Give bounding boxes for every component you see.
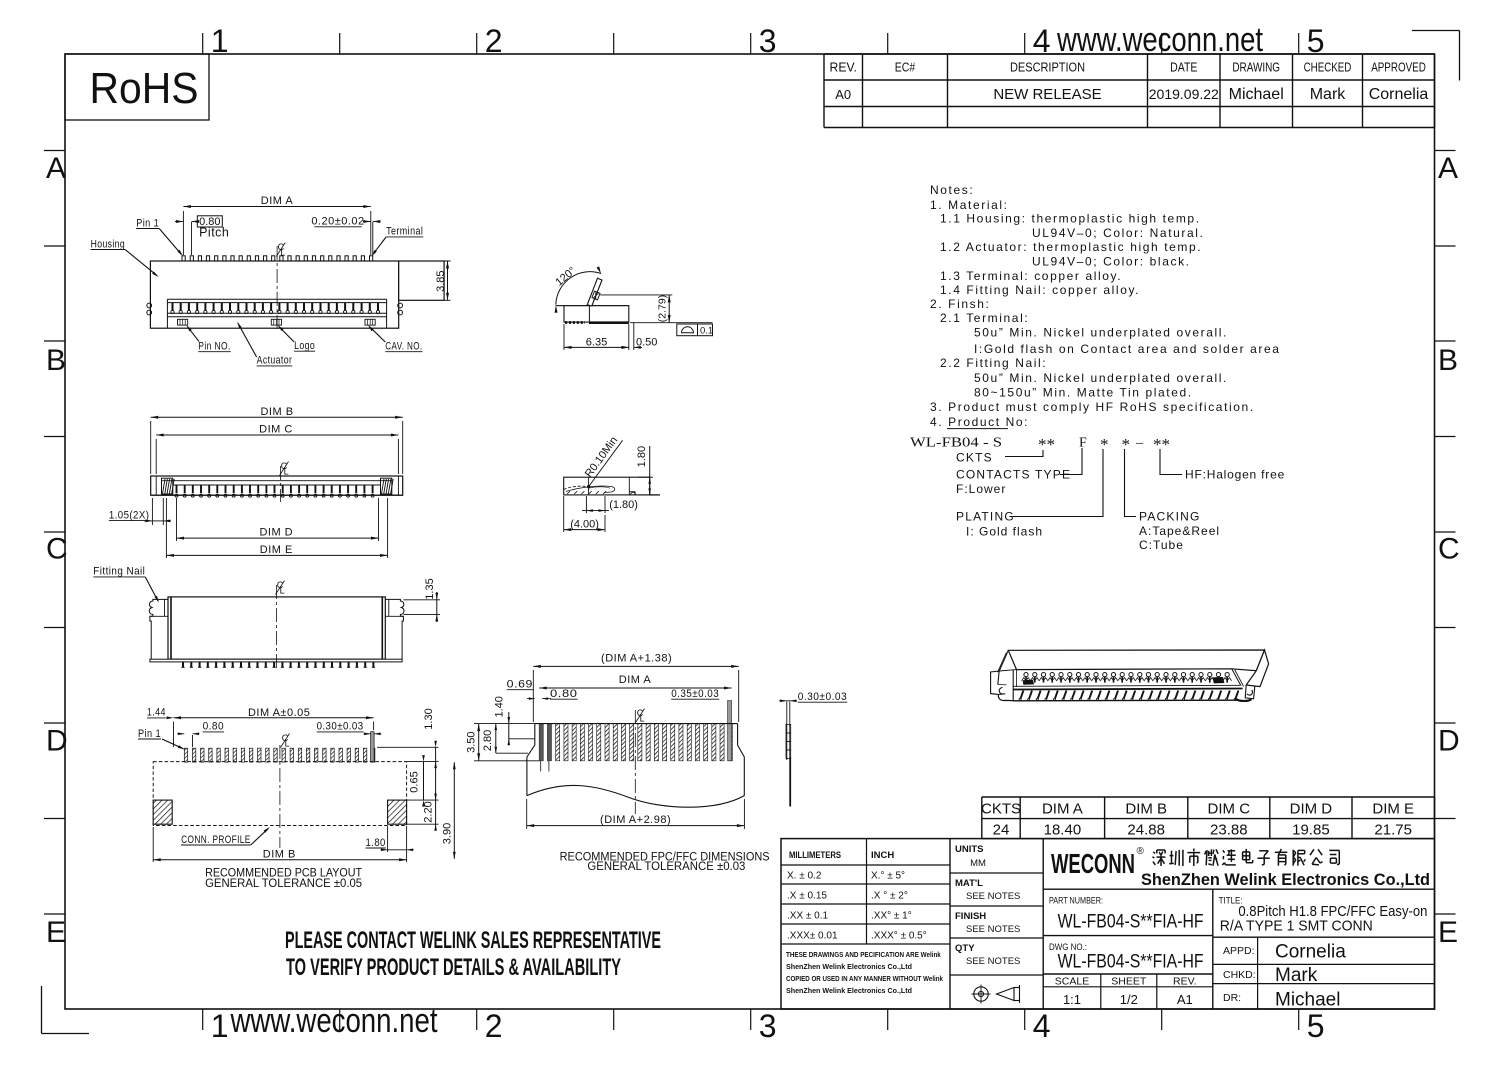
svg-text:APPROVED: APPROVED bbox=[1371, 60, 1426, 75]
svg-text:.XX° ± 1°: .XX° ± 1° bbox=[871, 911, 912, 922]
svg-text:CAV. NO.: CAV. NO. bbox=[385, 341, 422, 353]
svg-text:23.88: 23.88 bbox=[1210, 822, 1248, 839]
svg-text:A0: A0 bbox=[835, 87, 851, 102]
svg-text:HF:Halogen free: HF:Halogen free bbox=[1185, 468, 1285, 482]
svg-text:UNITS: UNITS bbox=[955, 844, 984, 855]
svg-text:CKTS: CKTS bbox=[981, 801, 1021, 818]
svg-text:ShenZhen Welink Electronics Co: ShenZhen Welink Electronics Co.,Ltd bbox=[786, 988, 912, 995]
svg-text:0.80: 0.80 bbox=[550, 688, 578, 700]
svg-text:2: 2 bbox=[485, 23, 503, 59]
svg-text:4. Product No:: 4. Product No: bbox=[930, 415, 1029, 429]
svg-text:DRAWING: DRAWING bbox=[1232, 60, 1280, 75]
svg-text:CONN. PROFILE: CONN. PROFILE bbox=[181, 834, 251, 846]
svg-text:C: C bbox=[1438, 533, 1460, 566]
svg-text:CONTACTS TYPE: CONTACTS TYPE bbox=[956, 468, 1071, 482]
svg-text:REV.: REV. bbox=[1173, 976, 1197, 988]
svg-text:GENERAL TOLERANCE ±0.05: GENERAL TOLERANCE ±0.05 bbox=[205, 878, 362, 890]
svg-text:2.1 Terminal:: 2.1 Terminal: bbox=[940, 311, 1029, 325]
svg-text:3.90: 3.90 bbox=[442, 823, 454, 844]
svg-text:.X ° ± 2°: .X ° ± 2° bbox=[871, 891, 908, 902]
svg-text:1.35: 1.35 bbox=[424, 578, 436, 599]
svg-text:18.40: 18.40 bbox=[1044, 822, 1082, 839]
svg-text:.XXX° ± 0.5°: .XXX° ± 0.5° bbox=[871, 931, 927, 942]
svg-text:INCH: INCH bbox=[871, 850, 894, 861]
svg-text:1. Material:: 1. Material: bbox=[930, 198, 1009, 212]
svg-text:24.88: 24.88 bbox=[1127, 822, 1165, 839]
svg-text:A: A bbox=[1438, 152, 1458, 185]
svg-text:DR:: DR: bbox=[1223, 992, 1241, 1004]
svg-text:3. Product must comply HF: 3. Product must comply HF RoHS specifica… bbox=[930, 400, 1255, 414]
svg-text:WL-FB04 - S: WL-FB04 - S bbox=[910, 436, 1002, 451]
svg-text:.XXX± 0.01: .XXX± 0.01 bbox=[787, 931, 838, 942]
svg-text:**: ** bbox=[1153, 435, 1170, 454]
svg-text:QTY: QTY bbox=[955, 943, 975, 954]
svg-text:UL94V–0; Color: black.: UL94V–0; Color: black. bbox=[1032, 255, 1191, 269]
svg-text:A1: A1 bbox=[1177, 992, 1193, 1007]
svg-text:0.69: 0.69 bbox=[507, 679, 533, 691]
svg-text:PLEASE CONTACT WELINK SALES RE: PLEASE CONTACT WELINK SALES REPRESENTATI… bbox=[285, 927, 661, 954]
svg-text:1.1 Housing: thermoplastic: 1.1 Housing: thermoplastic high temp. bbox=[940, 212, 1201, 226]
svg-text:CKTS: CKTS bbox=[956, 451, 993, 465]
svg-text:CHKD:: CHKD: bbox=[1223, 969, 1256, 981]
svg-text:B: B bbox=[1438, 344, 1458, 377]
svg-text:X. ± 0.2: X. ± 0.2 bbox=[787, 871, 822, 882]
svg-text:B: B bbox=[46, 344, 66, 377]
svg-text:2: 2 bbox=[485, 1008, 503, 1044]
svg-text:X.° ± 5°: X.° ± 5° bbox=[871, 871, 905, 882]
svg-text:1: 1 bbox=[211, 1008, 229, 1044]
svg-text:19.85: 19.85 bbox=[1292, 822, 1330, 839]
svg-text:NEW RELEASE: NEW RELEASE bbox=[993, 86, 1101, 103]
svg-text:1.44: 1.44 bbox=[147, 707, 166, 719]
svg-text:D: D bbox=[1438, 725, 1460, 758]
svg-text:DIM E: DIM E bbox=[1372, 801, 1414, 818]
svg-text:–: – bbox=[1135, 436, 1144, 451]
svg-text:Fitting Nail: Fitting Nail bbox=[93, 566, 145, 578]
svg-text:3: 3 bbox=[759, 1008, 777, 1044]
svg-text:1.4 Fitting Nail: copper a: 1.4 Fitting Nail: copper alloy. bbox=[940, 283, 1140, 297]
svg-text:www.weconn.net: www.weconn.net bbox=[230, 1002, 438, 1040]
svg-text:Cornelia: Cornelia bbox=[1275, 942, 1346, 963]
svg-text:Actuator: Actuator bbox=[257, 355, 293, 367]
svg-text:50u” Min. Nickel underplate: 50u” Min. Nickel underplated overall. bbox=[974, 371, 1228, 385]
svg-text:2019.09.22: 2019.09.22 bbox=[1149, 86, 1219, 102]
svg-text:WECONN: WECONN bbox=[1051, 848, 1135, 879]
svg-text:(DIM A+1.38): (DIM A+1.38) bbox=[601, 653, 672, 665]
svg-text:1.3 Terminal: copper alloy.: 1.3 Terminal: copper alloy. bbox=[940, 269, 1122, 283]
svg-text:Terminal: Terminal bbox=[386, 226, 423, 238]
svg-text:(1.80): (1.80) bbox=[609, 499, 638, 511]
svg-text:A:Tape&Reel: A:Tape&Reel bbox=[1139, 524, 1220, 538]
svg-text:MILLIMETERS: MILLIMETERS bbox=[789, 850, 841, 861]
svg-text:0.30±0.03: 0.30±0.03 bbox=[798, 691, 848, 703]
svg-text:2.2 Fitting Nail:: 2.2 Fitting Nail: bbox=[940, 356, 1047, 370]
svg-text:(4.00): (4.00) bbox=[570, 519, 599, 531]
svg-text:24: 24 bbox=[993, 822, 1010, 839]
svg-text:3: 3 bbox=[759, 23, 777, 59]
svg-text:PART NUMBER:: PART NUMBER: bbox=[1049, 896, 1103, 907]
svg-text:ShenZhen Welink Electronics Co: ShenZhen Welink Electronics Co.,Ltd bbox=[1141, 870, 1430, 889]
svg-text:0.1: 0.1 bbox=[700, 326, 713, 337]
svg-text:Pin 1: Pin 1 bbox=[136, 217, 159, 229]
svg-text:Housing: Housing bbox=[91, 238, 126, 250]
svg-text:SHEET: SHEET bbox=[1111, 976, 1147, 988]
svg-text:®: ® bbox=[1137, 846, 1145, 857]
svg-text:F:Lower: F:Lower bbox=[956, 482, 1006, 496]
svg-text:21.75: 21.75 bbox=[1374, 822, 1412, 839]
svg-text:Michael: Michael bbox=[1275, 990, 1340, 1011]
svg-text:Mark: Mark bbox=[1275, 965, 1318, 986]
svg-text:0.50: 0.50 bbox=[636, 336, 657, 348]
svg-text:6.35: 6.35 bbox=[586, 336, 607, 348]
svg-text:Cornelia: Cornelia bbox=[1369, 86, 1429, 103]
svg-text:1: 1 bbox=[211, 23, 229, 59]
svg-text:**: ** bbox=[1038, 435, 1055, 454]
svg-text:DIM D: DIM D bbox=[1290, 801, 1333, 818]
svg-text:1/2: 1/2 bbox=[1120, 992, 1138, 1007]
svg-text:E: E bbox=[1438, 916, 1458, 949]
svg-text:FINISH: FINISH bbox=[955, 911, 986, 922]
svg-text:*: * bbox=[1100, 435, 1109, 454]
svg-text:DIM C: DIM C bbox=[1208, 801, 1251, 818]
svg-text:Pitch: Pitch bbox=[199, 226, 229, 240]
svg-text:Mark: Mark bbox=[1310, 86, 1347, 103]
svg-text:TO VERIFY PRODUCT DETAILS & AV: TO VERIFY PRODUCT DETAILS & AVAILABILITY bbox=[286, 954, 621, 981]
svg-text:C:Tube: C:Tube bbox=[1139, 538, 1184, 552]
svg-text:REV.: REV. bbox=[830, 60, 857, 75]
svg-text:DIM A: DIM A bbox=[1042, 801, 1083, 818]
svg-text:THESE DRAWINGS AND PECIFICATIO: THESE DRAWINGS AND PECIFICATION ARE Weli… bbox=[786, 952, 941, 959]
svg-text:SEE NOTES: SEE NOTES bbox=[966, 956, 1020, 967]
svg-text:2. Finsh:: 2. Finsh: bbox=[930, 297, 990, 311]
svg-text:0.20±0.02: 0.20±0.02 bbox=[311, 216, 364, 228]
svg-text:WL-FB04-S**FIA-HF: WL-FB04-S**FIA-HF bbox=[1058, 952, 1204, 973]
svg-text:DIM E: DIM E bbox=[260, 544, 293, 556]
svg-text:SEE NOTES: SEE NOTES bbox=[966, 924, 1020, 935]
svg-text:E: E bbox=[46, 916, 66, 949]
svg-text:5: 5 bbox=[1307, 1008, 1325, 1044]
svg-text:MM: MM bbox=[970, 858, 986, 869]
svg-text:3.50: 3.50 bbox=[465, 731, 477, 752]
svg-text:PLATING: PLATING bbox=[956, 510, 1015, 524]
svg-text:RoHS: RoHS bbox=[90, 64, 199, 113]
svg-text:.X ± 0.15: .X ± 0.15 bbox=[787, 891, 827, 902]
svg-text:I: Gold flash: I: Gold flash bbox=[966, 525, 1043, 539]
svg-text:DIM D: DIM D bbox=[259, 527, 293, 539]
svg-text:3.85: 3.85 bbox=[435, 270, 447, 291]
svg-text:1.80: 1.80 bbox=[636, 446, 648, 467]
svg-text:1.2 Actuator: thermoplastic: 1.2 Actuator: thermoplastic high temp. bbox=[940, 240, 1202, 254]
svg-text:(2.79): (2.79) bbox=[657, 295, 669, 322]
svg-text:*: * bbox=[1122, 435, 1131, 454]
svg-text:DIM A: DIM A bbox=[261, 195, 294, 207]
svg-text:ShenZhen Welink Electronics Co: ShenZhen Welink Electronics Co.,Ltd bbox=[786, 964, 912, 971]
svg-text:SCALE: SCALE bbox=[1055, 976, 1089, 988]
svg-text:MAT'L: MAT'L bbox=[955, 878, 983, 889]
svg-text:SEE NOTES: SEE NOTES bbox=[966, 891, 1020, 902]
svg-text:1.80: 1.80 bbox=[366, 837, 386, 849]
svg-text:(DIM A+2.98): (DIM A+2.98) bbox=[600, 814, 671, 826]
svg-text:2.80: 2.80 bbox=[482, 730, 494, 751]
svg-text:UL94V–0; Color: Natural.: UL94V–0; Color: Natural. bbox=[1032, 226, 1204, 240]
svg-text:Pin 1: Pin 1 bbox=[138, 728, 161, 740]
svg-text:0.30±0.03: 0.30±0.03 bbox=[317, 721, 364, 733]
svg-text:1.05(2X): 1.05(2X) bbox=[109, 509, 149, 521]
svg-text:Michael: Michael bbox=[1229, 86, 1284, 103]
svg-text:0.35±0.03: 0.35±0.03 bbox=[671, 688, 719, 700]
svg-text:Logo: Logo bbox=[294, 340, 315, 352]
svg-text:DIM B: DIM B bbox=[263, 849, 296, 861]
svg-text:I:Gold flash on Contact ar: I:Gold flash on Contact area and solder … bbox=[974, 342, 1281, 356]
svg-text:DIM A: DIM A bbox=[619, 674, 652, 686]
svg-text:EC#: EC# bbox=[895, 60, 916, 75]
svg-text:WL-FB04-S**FIA-HF: WL-FB04-S**FIA-HF bbox=[1058, 912, 1204, 933]
svg-text:0.80: 0.80 bbox=[203, 721, 225, 733]
svg-text:1.30: 1.30 bbox=[423, 708, 435, 729]
svg-text:4: 4 bbox=[1033, 1008, 1051, 1044]
svg-text:D: D bbox=[46, 725, 68, 758]
svg-text:DIM C: DIM C bbox=[259, 424, 293, 436]
svg-text:Notes:: Notes: bbox=[930, 183, 974, 197]
svg-text:2.20: 2.20 bbox=[423, 801, 435, 822]
svg-text:Pin NO.: Pin NO. bbox=[198, 341, 230, 353]
svg-text:1.40: 1.40 bbox=[494, 696, 506, 717]
svg-text:DIM A±0.05: DIM A±0.05 bbox=[248, 707, 310, 719]
svg-text:DESCRIPTION: DESCRIPTION bbox=[1010, 60, 1085, 75]
svg-text:0.65: 0.65 bbox=[409, 771, 421, 792]
svg-text:80~150u” Min. Matte Tin pl: 80~150u” Min. Matte Tin plated. bbox=[974, 385, 1193, 399]
svg-text:PACKING: PACKING bbox=[1139, 510, 1201, 524]
svg-text:1:1: 1:1 bbox=[1063, 992, 1081, 1007]
svg-text:A: A bbox=[46, 152, 66, 185]
svg-text:DATE: DATE bbox=[1170, 60, 1198, 75]
svg-text:R/A TYPE 1 SMT CONN: R/A TYPE 1 SMT CONN bbox=[1220, 918, 1373, 935]
svg-text:APPD:: APPD: bbox=[1223, 945, 1255, 957]
svg-text:GENERAL TOLERANCE ±0.03: GENERAL TOLERANCE ±0.03 bbox=[587, 861, 745, 873]
svg-text:DIM B: DIM B bbox=[1125, 801, 1167, 818]
svg-text:COPIED OR USED IN ANY MANNER W: COPIED OR USED IN ANY MANNER WITHOUT Wel… bbox=[786, 976, 943, 983]
svg-text:.XX ± 0.1: .XX ± 0.1 bbox=[787, 911, 829, 922]
svg-text:C: C bbox=[46, 533, 68, 566]
svg-text:CHECKED: CHECKED bbox=[1304, 60, 1352, 75]
svg-text:DIM B: DIM B bbox=[260, 406, 293, 418]
svg-text:50u” Min. Nickel underplate: 50u” Min. Nickel underplated overall. bbox=[974, 326, 1228, 340]
svg-text:F: F bbox=[1079, 436, 1087, 451]
